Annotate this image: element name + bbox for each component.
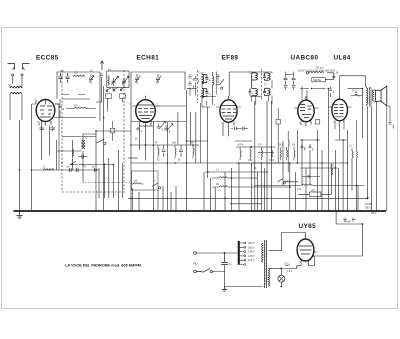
balun coil L1 <box>10 84 22 97</box>
trimmer arrow B right of ECH81 <box>164 124 173 133</box>
switch block squares <box>106 94 112 99</box>
dial cord dash-dot linkage horizontal <box>62 191 127 193</box>
wire row y88 right <box>187 88 197 90</box>
heater secondary winding <box>268 269 269 287</box>
svg-text:C41: C41 <box>297 189 302 191</box>
wire switch to cap <box>213 267 225 272</box>
IF transformer T1 primary <box>202 75 210 85</box>
trimmer capacitor C1 <box>59 73 63 83</box>
svg-text:45+45: 45+45 <box>344 221 351 224</box>
detector cap stack 1 <box>284 75 288 90</box>
svg-text:UABC80: UABC80 <box>291 55 319 62</box>
wire row y152 <box>258 152 274 154</box>
capacitor C10 <box>75 168 80 172</box>
mains voltage label <box>298 66 335 82</box>
primary taps <box>240 242 246 265</box>
wire vertical x72.5 <box>72 140 74 170</box>
mains plug terminal 1 <box>194 252 197 255</box>
AM antenna mast <box>100 61 103 70</box>
oscillator trimmer C5 <box>135 74 141 84</box>
coupling caps column x190 <box>188 74 198 88</box>
wire row y203 <box>230 203 262 205</box>
resistor R4 vertical <box>175 145 176 158</box>
AC tilde <box>194 263 198 265</box>
svg-text:220 V: 220 V <box>248 241 255 245</box>
wire UY85 heater <box>281 257 314 269</box>
wire row y136 <box>62 136 96 138</box>
junction dots scatter <box>19 88 364 288</box>
switch S3 radio-fono <box>278 179 299 184</box>
svg-text:125 V: 125 V <box>248 254 255 258</box>
wire row y126 <box>140 125 154 127</box>
band switch contacts <box>106 87 125 91</box>
svg-text:470k: 470k <box>238 145 244 147</box>
wire verticals to bus comb4 <box>251 163 271 211</box>
svg-text:50 c/s: 50 c/s <box>316 66 324 70</box>
svg-text:7: 7 <box>307 263 308 265</box>
svg-text:3: 3 <box>299 123 300 125</box>
cap x330 <box>329 87 334 97</box>
wire row y164 <box>79 164 114 166</box>
wire x59 drop <box>58 117 60 170</box>
T1 bottom caps row <box>200 96 262 98</box>
wire UL84 pins extended <box>335 120 356 148</box>
wire row y185 resistor chain <box>255 184 365 186</box>
resistor R13 vertical x288 <box>288 131 289 172</box>
oscillator trimmer C6 <box>156 74 162 84</box>
wire vertical x140 <box>139 126 141 150</box>
output transformer T4 <box>367 87 374 107</box>
loudspeaker LS <box>374 86 387 106</box>
wire row y170 left <box>32 169 100 171</box>
fuse box LPO <box>309 192 321 197</box>
line capacitor C12 <box>221 253 228 267</box>
IF transformer T2 secondary <box>249 89 258 96</box>
wire T3 top <box>252 71 272 73</box>
trimmer arrow A right of ECH81 <box>157 122 166 131</box>
svg-text:350 V: 350 V <box>365 207 372 210</box>
capacitor C9 <box>68 168 73 172</box>
resistor R6 <box>43 169 54 170</box>
capacitor pair x138 <box>136 127 141 132</box>
svg-text:9: 9 <box>305 97 306 99</box>
mains cord squiggle <box>309 72 324 73</box>
wire vertical x41.5 <box>41 121 43 160</box>
wire row y88 to OT <box>348 88 363 90</box>
svg-text:7: 7 <box>310 123 311 125</box>
T1 extra winding <box>213 72 215 105</box>
resistor R1 top <box>73 75 85 77</box>
tube UL84 <box>328 95 352 125</box>
svg-text:100k: 100k <box>278 145 284 147</box>
RETE box <box>312 78 326 82</box>
resistor R12 heater <box>285 265 290 266</box>
wire verticals from gang <box>96 77 123 111</box>
resistor R5 vertical <box>193 145 194 158</box>
resistor R9 <box>302 184 312 186</box>
series caps x60 <box>58 99 63 118</box>
dial cord dash-dot linkage vertical 2 <box>123 70 125 192</box>
IF transformer T3 secondary <box>263 88 270 95</box>
wire row y121 <box>131 121 186 123</box>
wire verticals to bus comb5 <box>283 140 310 211</box>
wire left vertical B <box>31 120 33 211</box>
trimmer C3 with arrow <box>89 74 94 84</box>
wire verticals to bus comb1 <box>99 150 123 211</box>
svg-text:110 V: 110 V <box>248 258 255 262</box>
wire vertical x56 <box>56 140 58 170</box>
pin number specks <box>37 96 344 264</box>
wire vertical x200 <box>200 103 202 163</box>
variable capacitor CV2 <box>122 76 129 86</box>
IF transformer T1 secondary <box>202 89 210 99</box>
svg-text:6: 6 <box>157 104 158 106</box>
svg-text:2M: 2M <box>216 184 219 186</box>
switch FONO lever <box>97 140 106 145</box>
svg-text:3: 3 <box>37 122 38 124</box>
resistor R2 <box>74 107 86 109</box>
wire verticals to bus comb6 <box>317 89 347 212</box>
T3 leads <box>269 72 273 105</box>
capacitor C13 <box>100 74 103 75</box>
svg-text:CV: CV <box>108 69 112 71</box>
capacitor C8 vertical <box>179 145 183 157</box>
tube UY85 <box>297 235 317 265</box>
wire x190 drop <box>190 83 196 96</box>
tube ECC85 <box>32 100 59 126</box>
ECC85 input box top <box>57 72 100 121</box>
svg-text:5: 5 <box>50 122 51 124</box>
tuning gang box <box>107 71 129 88</box>
svg-text:6,3 V: 6,3 V <box>287 271 293 273</box>
wire row y163 det <box>236 162 290 164</box>
coupling caps y128 <box>234 127 248 131</box>
row y176 right <box>302 175 320 178</box>
wire LPO row <box>298 193 331 195</box>
resistor R3 vertical <box>158 145 159 158</box>
junction dot y198 <box>367 197 369 199</box>
svg-text:1: 1 <box>214 105 215 107</box>
svg-text:RETE: RETE <box>314 78 322 82</box>
svg-text:3: 3 <box>221 124 222 126</box>
wire row y147 <box>236 146 276 148</box>
capacitor C2 <box>66 73 70 83</box>
svg-text:9: 9 <box>343 122 344 124</box>
wire oscillator row y163 <box>131 162 347 164</box>
svg-text:UL84: UL84 <box>334 55 351 62</box>
svg-text:9: 9 <box>304 236 305 238</box>
capacitor C4 <box>78 155 88 159</box>
pilot lamp LP1 <box>278 269 285 287</box>
wire row y172 <box>205 171 267 173</box>
svg-text:4: 4 <box>144 126 145 128</box>
ground symbol left <box>17 211 23 219</box>
FM detector coil L2 <box>82 140 85 149</box>
component box x110 <box>110 128 115 133</box>
svg-text:1M: 1M <box>292 145 295 147</box>
capacitor under ECC85 left <box>39 126 43 131</box>
svg-text:4: 4 <box>44 124 45 126</box>
svg-text:3: 3 <box>300 262 301 264</box>
detector cap stack 2 <box>292 75 296 90</box>
wire verticals osc upper <box>178 112 196 163</box>
svg-text:UY85: UY85 <box>299 223 317 230</box>
svg-text:1M: 1M <box>134 181 137 183</box>
ground symbol bottom <box>222 287 227 292</box>
dotted line y182 <box>83 181 133 183</box>
power transformer primary winding <box>238 241 240 265</box>
resistor R10 vertical <box>332 168 333 175</box>
wire row y168 right <box>300 167 338 169</box>
wire oscillator row y145 <box>131 144 199 146</box>
T1 leads <box>202 72 210 107</box>
svg-text:350V: 350V <box>371 213 377 215</box>
tube UABC80 <box>294 96 319 126</box>
svg-text:8: 8 <box>228 97 229 99</box>
wire row y140 right <box>300 139 347 141</box>
wire verticals to bus comb2 <box>132 186 176 211</box>
electrolytic cap block labels <box>344 203 372 224</box>
wire left vertical A <box>19 120 21 211</box>
resistor R11 vertical <box>352 148 358 161</box>
svg-text:1: 1 <box>45 98 46 100</box>
wire box x110 <box>112 121 114 141</box>
svg-text:2: 2 <box>233 124 234 126</box>
tube EF89 <box>216 96 241 126</box>
capacitor C11 <box>93 168 98 172</box>
wire antenna to ECC85 <box>10 97 32 120</box>
resistor R7 <box>212 177 257 178</box>
wire row y198 long <box>128 197 368 199</box>
wire mains top <box>196 252 239 254</box>
svg-text:ECH81: ECH81 <box>137 55 160 62</box>
wire HT to UY85 plate <box>269 233 306 251</box>
mains cord connector <box>306 72 308 74</box>
wire vertical x167 <box>166 122 168 211</box>
wire L2 leads <box>83 134 96 182</box>
wire vertical x255 upper <box>255 101 271 172</box>
wire verticals to bus comb7 <box>352 89 362 212</box>
value labels scatter <box>18 69 377 272</box>
junction dot mains top <box>224 252 226 254</box>
tap labels <box>248 241 255 262</box>
wire vertical x50 <box>49 126 51 156</box>
diode caps UABC80 <box>301 144 313 150</box>
wire vertical x297 <box>296 130 298 163</box>
volume control box <box>132 171 159 190</box>
FM dipole antenna <box>8 64 30 85</box>
wire vertical x103.7 <box>103 86 105 211</box>
resistor R14 vertical x72 <box>73 149 74 156</box>
core rungs <box>265 242 267 284</box>
tone capacitor across speaker <box>387 106 393 129</box>
wire vertical x186 <box>186 90 188 211</box>
wire row y131 <box>96 130 131 132</box>
svg-text:470k: 470k <box>269 160 275 162</box>
tube ECH81 <box>132 96 160 127</box>
dial cord dash-dot linkage vertical 1 <box>61 70 63 192</box>
gang coil <box>108 76 109 86</box>
HT secondary winding <box>262 243 263 262</box>
wire heater row <box>268 269 281 287</box>
ground bus <box>14 210 387 212</box>
component box x315 <box>315 120 320 125</box>
svg-text:9: 9 <box>145 97 146 99</box>
wire ECC85 plate row <box>54 117 96 119</box>
svg-text:5: 5 <box>150 124 151 126</box>
svg-text:LPO: LPO <box>311 190 316 192</box>
svg-text:140 V: 140 V <box>248 250 255 254</box>
svg-text:0,27: 0,27 <box>284 263 289 265</box>
wire ECH81 cathode <box>145 126 147 160</box>
svg-text:EF89: EF89 <box>222 55 239 62</box>
svg-text:3: 3 <box>333 122 334 124</box>
wire OT to bus verticals <box>368 101 377 211</box>
wire row y141 mid <box>187 140 253 142</box>
svg-text:5: 5 <box>339 96 340 98</box>
wire UY85 cathode B+ <box>314 211 363 256</box>
wire R2 row <box>66 108 96 110</box>
IF transformer T3 primary <box>263 73 270 80</box>
switch S2 <box>152 183 161 189</box>
potentiometer P1 <box>131 183 143 184</box>
ECH81 top box <box>131 72 185 121</box>
wire vertical x131 <box>130 121 132 211</box>
svg-text:3: 3 <box>137 124 138 126</box>
IF transformer T2 primary <box>252 73 258 89</box>
wire row y158 mid <box>128 157 138 159</box>
transformer core <box>265 240 267 288</box>
IF can boundary T2 <box>261 69 263 99</box>
svg-text:RADIO: RADIO <box>284 181 291 184</box>
cathode resistors EF89 <box>240 147 295 160</box>
wire x277 <box>277 108 279 163</box>
svg-text:2: 2 <box>129 104 130 106</box>
capacitor under ECC85 right <box>50 126 54 131</box>
junction dot B+ <box>362 223 364 225</box>
wire vertical x207 <box>207 107 209 178</box>
wire EF89 cathode bits <box>223 126 233 136</box>
wire speaker frame to bus <box>386 106 388 211</box>
component box x277 <box>276 120 281 125</box>
UABC80 grid leads <box>300 86 326 100</box>
wire ECC85 grid <box>36 99 59 117</box>
filter cap marks <box>343 218 356 222</box>
wire vertical x153 <box>152 121 154 211</box>
IF can boundary T1 <box>197 70 199 103</box>
EF89 grid components <box>216 72 224 95</box>
svg-text:160 V: 160 V <box>248 245 255 249</box>
wire verticals to bus comb3 <box>204 163 239 211</box>
wire mains to right <box>325 73 334 80</box>
T2 leads <box>252 96 256 105</box>
AM-FM switch S1a <box>70 162 78 165</box>
svg-text:LA VOCE DEL PADRONE mod. 605: LA VOCE DEL PADRONE mod. 605 AM/FM <box>65 263 141 267</box>
resistor R8 <box>212 186 290 187</box>
ECC85 box inner squiggles <box>62 94 90 99</box>
capacitor C7 vertical <box>162 145 166 157</box>
wire row y95 <box>351 91 363 97</box>
svg-text:ECC85: ECC85 <box>36 55 59 62</box>
variable capacitor CV1 <box>112 76 119 86</box>
svg-text:7: 7 <box>227 126 228 128</box>
junction dot heater <box>280 268 282 270</box>
wire UL84 plate top <box>332 73 365 95</box>
junction dot y187 <box>289 186 291 188</box>
power switch S4 <box>196 268 209 272</box>
wire detector caps top <box>286 72 294 75</box>
wire row y151 left <box>57 150 82 152</box>
wire cap to ground <box>225 272 264 287</box>
wire vertical x96 <box>95 130 97 211</box>
junction dot UABC80 grid <box>311 88 313 90</box>
mains plug terminal 2 <box>194 270 197 273</box>
wire EF89 plate to T2 <box>229 72 252 96</box>
wire ECH81 plate row <box>156 105 187 107</box>
svg-text:8: 8 <box>305 125 306 127</box>
svg-text:7: 7 <box>338 124 339 126</box>
